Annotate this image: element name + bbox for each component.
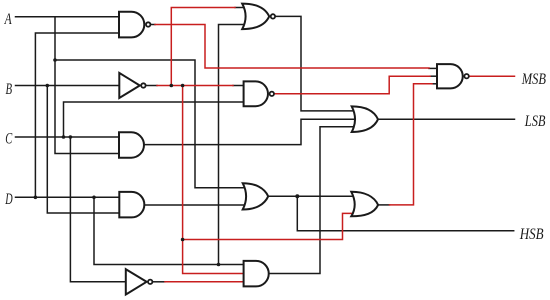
svg-text:HSB: HSB (519, 226, 544, 243)
svg-text:MSB: MSB (521, 71, 546, 88)
svg-text:A: A (4, 11, 12, 28)
svg-text:C: C (5, 131, 12, 148)
svg-text:LSB: LSB (524, 113, 546, 130)
svg-text:B: B (6, 81, 13, 98)
svg-text:D: D (5, 191, 13, 208)
